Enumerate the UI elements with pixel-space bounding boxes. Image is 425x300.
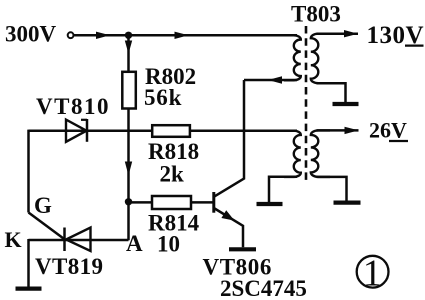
ground at upper secondary: [333, 102, 359, 106]
ground at K: [16, 287, 42, 291]
transformer core dashed line: [305, 26, 308, 182]
arrow 26V: [345, 127, 359, 134]
svg-text:2k: 2k: [160, 161, 185, 186]
wire gate diagonal: [29, 213, 65, 240]
transformer lower secondary winding: [311, 130, 330, 177]
wire upper secondary bottom to ground: [317, 83, 346, 102]
transistor VT806 emitter: [214, 208, 243, 247]
diode VT810 triangle: [66, 120, 87, 142]
svg-text:VT819: VT819: [35, 254, 103, 279]
wire gate row (VT810 row): [29, 129, 298, 132]
arrow down above R814 junction: [125, 162, 132, 176]
svg-text:A: A: [126, 231, 143, 256]
wire left vertical (gate feed): [27, 130, 30, 213]
diode VT810 cathode bar: [86, 119, 89, 142]
svg-text:56k: 56k: [144, 85, 182, 110]
figure number circle 1: [357, 256, 389, 288]
thyristor VT819 triangle: [66, 228, 91, 252]
node junction dot at R802 branch: [125, 32, 132, 39]
node 300V input terminal: [68, 32, 74, 38]
wire lower primary bottom to ground: [269, 177, 297, 202]
ground at emitter: [229, 247, 256, 251]
svg-text:R818: R818: [148, 139, 199, 164]
arrow 130V: [344, 30, 358, 37]
transformer upper primary winding: [284, 35, 301, 80]
arrow on 300V bus (left): [96, 32, 110, 39]
ground at lower secondary: [334, 201, 361, 205]
svg-text:300V: 300V: [5, 22, 57, 47]
svg-text:VT810: VT810: [36, 94, 110, 119]
wire 130V output: [317, 32, 359, 35]
emitter arrow: [221, 210, 234, 220]
svg-text:1: 1: [363, 253, 382, 295]
svg-text:2SC4745: 2SC4745: [220, 276, 307, 300]
node junction dot at R814 row: [125, 198, 132, 205]
wire 300V bus to transformer primary: [74, 34, 297, 37]
resistor R818: [152, 125, 190, 137]
underline under V of 130V: [405, 44, 424, 46]
svg-text:G: G: [34, 193, 52, 218]
svg-text:T803: T803: [291, 2, 341, 27]
arrow left on primary return: [268, 76, 282, 83]
svg-text:K: K: [5, 227, 22, 252]
wire thyristor anode row: [29, 239, 129, 242]
transistor VT806 collector: [214, 80, 244, 197]
underline under V of 26V: [389, 140, 408, 142]
transistor VT806 base bar: [212, 192, 215, 213]
wire primary return (collector to upper primary): [244, 79, 297, 82]
resistor R814: [152, 196, 191, 209]
svg-text:26V: 26V: [369, 117, 407, 142]
transformer lower primary winding: [284, 131, 301, 177]
arrow down below top junction: [125, 41, 132, 54]
wire 26V output: [317, 129, 359, 132]
svg-text:10: 10: [157, 232, 180, 257]
resistor R802: [122, 72, 136, 109]
wire K to ground: [27, 239, 30, 287]
diode VT810 cathode bar top hook: [81, 119, 87, 121]
arrow on 300V bus (right): [175, 32, 189, 39]
wire lower secondary bottom to ground: [317, 177, 347, 201]
thyristor VT819 cathode bar: [63, 228, 66, 252]
wire main vertical branch: [127, 35, 130, 240]
ground at lower primary: [257, 202, 283, 206]
transformer upper secondary winding: [311, 34, 330, 83]
wire R814 row (junction to base): [129, 201, 214, 204]
